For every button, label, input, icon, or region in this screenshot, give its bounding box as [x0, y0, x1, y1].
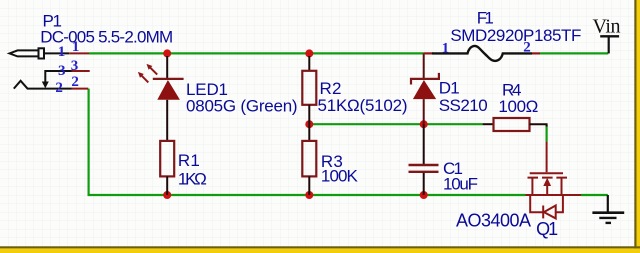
svg-text:2: 2 [523, 40, 531, 56]
wire bottom rail left [88, 194, 526, 196]
svg-text:10uF: 10uF [443, 174, 478, 193]
svg-text:1: 1 [72, 39, 80, 55]
transistor Q1 [526, 142, 582, 219]
R2 bottom lead [308, 105, 310, 124]
Q1 gate lead [546, 142, 548, 173]
R4 right pin [530, 124, 547, 126]
junction dot bottom R1 [163, 191, 171, 199]
svg-text:100Ω: 100Ω [498, 97, 538, 116]
svg-text:1: 1 [58, 44, 66, 60]
C1 bottom plate [409, 171, 439, 173]
wire middle rail [309, 123, 482, 125]
svg-text:SMD2920P185TF: SMD2920P185TF [450, 26, 581, 45]
wire R4 corner down [545, 125, 547, 141]
ground symbol [592, 195, 624, 223]
yellow border bottom [0, 248, 640, 253]
svg-text:2: 2 [55, 80, 63, 96]
junction dot top rail LED1 [163, 49, 171, 57]
wire left vertical P1 pin2 to bottom rail [87, 89, 89, 195]
LED1 triangle [157, 80, 180, 100]
resistor R3 body [302, 141, 316, 177]
Q1 red rail segment [526, 194, 582, 196]
svg-text:D1: D1 [439, 78, 460, 97]
Q1 body stub [546, 184, 548, 195]
svg-text:F1: F1 [477, 9, 494, 28]
wire fuse-to-Vin [540, 52, 608, 54]
Q1 body diode cathode bar [542, 206, 544, 219]
Vin power port [593, 15, 621, 53]
svg-text:3: 3 [71, 58, 79, 74]
svg-text:0805G (Green): 0805G (Green) [186, 97, 298, 116]
capacitor C1 top lead [423, 124, 425, 164]
LED1 emission arrow 1 [147, 64, 158, 75]
LED1 emission arrow 2 [138, 72, 148, 83]
Q1 gate bar [530, 172, 563, 174]
svg-text:R1: R1 [178, 151, 200, 170]
junction dot bottom R3 [305, 191, 313, 199]
svg-text:1: 1 [442, 41, 450, 57]
wire top rail [89, 52, 423, 54]
svg-text:AO3400A: AO3400A [456, 211, 531, 231]
LED1 top lead [166, 56, 168, 78]
LED1 cathode bar [153, 78, 184, 80]
svg-text:51KΩ(5102): 51KΩ(5102) [318, 96, 408, 115]
connector P1 plug symbol [10, 48, 70, 58]
Q1 channel segments [528, 177, 568, 179]
svg-text:1KΩ: 1KΩ [178, 170, 207, 189]
wire bottom rail right to ground [581, 194, 608, 196]
svg-text:2: 2 [71, 74, 79, 90]
pin 1 red stub [69, 52, 89, 54]
junction dot mid rail R2/R3 [305, 120, 313, 128]
Q1 body arrow [543, 178, 551, 186]
R2 top lead [308, 56, 310, 71]
junction dot top rail R2 [305, 49, 313, 57]
svg-text:SS210: SS210 [439, 96, 488, 115]
D1 triangle [413, 80, 436, 99]
D1 bottom lead [423, 99, 425, 124]
LED1 anode lead to R1 [166, 100, 168, 141]
junction dot mid rail D1/C1 [420, 120, 428, 128]
fuse F1 left red stub [423, 52, 433, 54]
R3 bottom lead [308, 176, 310, 195]
fuse F1 body [432, 46, 532, 61]
pin 3 red stub [72, 70, 90, 72]
junction dot bottom C1 [420, 191, 428, 199]
Q1 drain stub [561, 178, 563, 195]
R1 bottom lead [166, 176, 168, 195]
C1 top plate [409, 164, 439, 166]
svg-text:3: 3 [58, 63, 66, 79]
svg-text:Vin: Vin [593, 15, 621, 37]
fuse F1 right red stub [532, 52, 540, 54]
D1 top lead [423, 53, 425, 78]
svg-text:100K: 100K [321, 167, 359, 186]
resistor R2 body [302, 71, 316, 105]
resistor R1 body [160, 141, 174, 177]
resistor R4 left pin [483, 123, 494, 125]
yellow border right [637, 0, 640, 253]
Q1 source stub [531, 178, 533, 195]
pin 2 red stub [72, 88, 89, 90]
C1 bottom lead [423, 173, 425, 195]
connector P1 sleeve chevron [14, 81, 72, 89]
connector P1 switch pin 3 line [45, 71, 71, 84]
Q1 body diode triangle [544, 206, 556, 219]
R3 top lead [308, 124, 310, 141]
svg-text:Q1: Q1 [536, 219, 558, 239]
resistor R4 body [494, 118, 530, 131]
switch arrow head [42, 82, 49, 89]
D1 schottky cathode bar [411, 73, 439, 85]
Q1 body diode loop [530, 195, 563, 212]
